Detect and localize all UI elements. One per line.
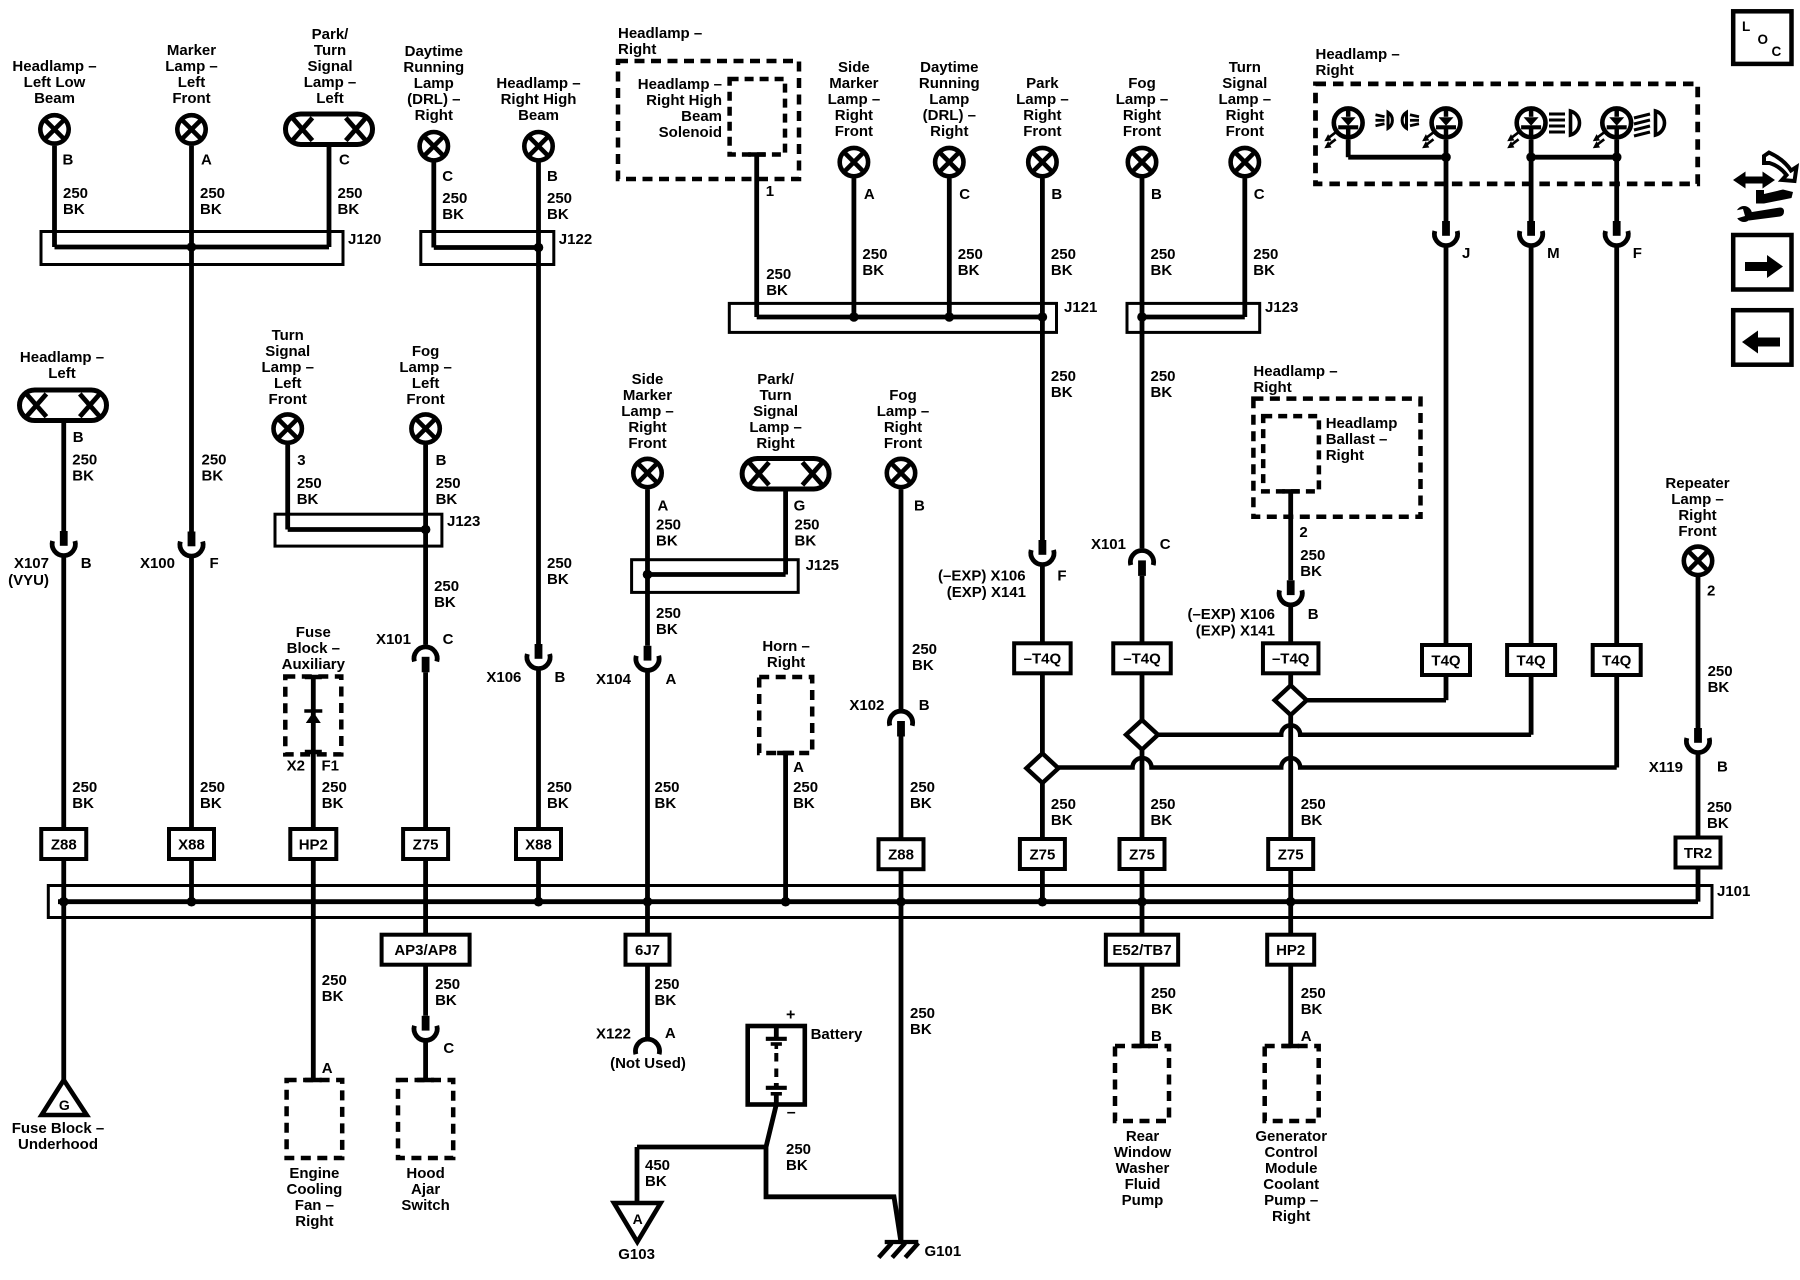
svg-text:A: A: [322, 1060, 333, 1077]
svg-text:G103: G103: [618, 1246, 655, 1263]
svg-text:Repeater: Repeater: [1665, 475, 1729, 492]
svg-text:B: B: [1051, 186, 1062, 203]
svg-text:X119: X119: [1649, 759, 1683, 776]
svg-text:Left Low: Left Low: [24, 74, 86, 91]
svg-text:F: F: [210, 555, 219, 572]
svg-text:250: 250: [910, 779, 935, 796]
svg-text:BK: BK: [1301, 1001, 1323, 1018]
svg-text:250: 250: [793, 779, 818, 796]
svg-text:(–EXP) X106: (–EXP) X106: [1187, 606, 1275, 623]
svg-text:Lamp –: Lamp –: [1671, 491, 1724, 508]
svg-text:Front: Front: [1123, 123, 1161, 140]
svg-text:Lamp –: Lamp –: [1116, 91, 1169, 108]
svg-text:Left: Left: [48, 365, 76, 382]
svg-text:Fluid: Fluid: [1125, 1176, 1161, 1193]
svg-text:Front: Front: [1678, 523, 1716, 540]
svg-text:Pump: Pump: [1122, 1192, 1164, 1209]
svg-text:Horn –: Horn –: [762, 638, 810, 655]
svg-text:X104: X104: [596, 671, 632, 688]
svg-text:L: L: [1742, 19, 1750, 34]
svg-text:BK: BK: [436, 491, 458, 508]
svg-text:250: 250: [200, 779, 225, 796]
svg-text:BK: BK: [786, 1157, 808, 1174]
svg-text:Park/: Park/: [312, 26, 350, 43]
svg-text:Lamp –: Lamp –: [1219, 91, 1272, 108]
svg-text:Left: Left: [412, 375, 440, 392]
svg-text:Right: Right: [1023, 107, 1061, 124]
svg-text:B: B: [1717, 759, 1728, 776]
svg-text:(DRL) –: (DRL) –: [407, 91, 460, 108]
svg-text:250: 250: [297, 475, 322, 492]
svg-text:Window: Window: [1114, 1144, 1172, 1161]
svg-text:250: 250: [656, 517, 681, 534]
svg-text:C: C: [1160, 536, 1171, 553]
svg-text:BK: BK: [1051, 384, 1073, 401]
svg-text:Solenoid: Solenoid: [659, 124, 722, 141]
svg-text:250: 250: [786, 1141, 811, 1158]
svg-text:Right: Right: [628, 419, 666, 436]
svg-text:Turn: Turn: [759, 387, 791, 404]
svg-text:Lamp –: Lamp –: [165, 58, 218, 75]
svg-text:250: 250: [1707, 799, 1732, 816]
svg-text:250: 250: [322, 972, 347, 989]
svg-text:A: A: [201, 151, 212, 168]
svg-text:C: C: [1254, 186, 1265, 203]
svg-text:Daytime: Daytime: [920, 59, 978, 76]
svg-text:Right: Right: [1326, 447, 1364, 464]
svg-text:250: 250: [912, 641, 937, 658]
svg-text:BK: BK: [655, 992, 677, 1009]
svg-text:Auxiliary: Auxiliary: [282, 656, 346, 673]
svg-text:Z75: Z75: [1129, 846, 1155, 863]
svg-text:C: C: [1772, 44, 1782, 59]
svg-text:B: B: [436, 452, 447, 469]
svg-text:BK: BK: [645, 1173, 667, 1190]
svg-text:BK: BK: [1151, 812, 1173, 829]
svg-text:G101: G101: [925, 1243, 962, 1260]
svg-text:BK: BK: [547, 795, 569, 812]
svg-text:250: 250: [1151, 796, 1176, 813]
svg-text:Rear: Rear: [1126, 1128, 1160, 1145]
svg-text:Side: Side: [838, 59, 870, 76]
svg-text:Headlamp –: Headlamp –: [638, 76, 722, 93]
svg-text:Right High: Right High: [646, 92, 722, 109]
svg-text:Signal: Signal: [1222, 75, 1267, 92]
svg-text:A: A: [864, 186, 875, 203]
svg-text:BK: BK: [1300, 563, 1322, 580]
svg-text:J125: J125: [806, 557, 839, 574]
svg-text:Right: Right: [1123, 107, 1161, 124]
svg-text:X101: X101: [376, 631, 411, 648]
svg-text:Right: Right: [756, 435, 794, 452]
svg-text:Beam: Beam: [681, 108, 722, 125]
svg-text:Beam: Beam: [518, 107, 559, 124]
svg-text:X122: X122: [596, 1026, 631, 1043]
svg-text:Hood: Hood: [406, 1165, 444, 1182]
svg-text:Engine: Engine: [289, 1165, 339, 1182]
svg-text:C: C: [959, 186, 970, 203]
svg-text:BK: BK: [547, 206, 569, 223]
svg-text:G: G: [794, 498, 806, 515]
svg-text:E52/TB7: E52/TB7: [1112, 942, 1171, 959]
svg-text:250: 250: [1051, 796, 1076, 813]
svg-text:Front: Front: [835, 123, 873, 140]
svg-text:X102: X102: [849, 697, 884, 714]
svg-text:BK: BK: [912, 657, 934, 674]
svg-text:J123: J123: [1265, 299, 1298, 316]
svg-text:Headlamp –: Headlamp –: [1316, 46, 1400, 63]
svg-text:250: 250: [547, 190, 572, 207]
svg-text:T4Q: T4Q: [1431, 652, 1461, 669]
svg-text:Right: Right: [1253, 379, 1291, 396]
svg-text:BK: BK: [200, 201, 222, 218]
svg-text:Front: Front: [1023, 123, 1061, 140]
svg-text:BK: BK: [766, 282, 788, 299]
svg-text:250: 250: [72, 779, 97, 796]
svg-text:Side: Side: [632, 371, 664, 388]
svg-text:Fog: Fog: [1128, 75, 1156, 92]
svg-text:Z75: Z75: [413, 836, 439, 853]
svg-text:Front: Front: [884, 435, 922, 452]
svg-text:BK: BK: [202, 468, 224, 485]
svg-text:Signal: Signal: [307, 58, 352, 75]
svg-text:250: 250: [547, 555, 572, 572]
svg-text:BK: BK: [1301, 812, 1323, 829]
svg-text:B: B: [547, 168, 558, 185]
svg-text:Front: Front: [628, 435, 666, 452]
svg-text:Park/: Park/: [757, 371, 795, 388]
svg-text:BK: BK: [63, 201, 85, 218]
svg-text:Lamp –: Lamp –: [621, 403, 674, 420]
svg-text:Fog: Fog: [889, 387, 917, 404]
svg-text:BK: BK: [338, 201, 360, 218]
svg-text:B: B: [555, 669, 566, 686]
svg-text:Right: Right: [835, 107, 873, 124]
svg-text:Right: Right: [1678, 507, 1716, 524]
svg-text:Right: Right: [415, 107, 453, 124]
svg-text:BK: BK: [656, 533, 678, 550]
svg-text:Right: Right: [884, 419, 922, 436]
svg-text:1: 1: [766, 183, 774, 200]
svg-text:BK: BK: [1708, 679, 1730, 696]
svg-text:BK: BK: [1051, 812, 1073, 829]
svg-text:Left: Left: [316, 90, 344, 107]
svg-text:B: B: [1151, 186, 1162, 203]
svg-text:Turn: Turn: [314, 42, 346, 59]
svg-text:Coolant: Coolant: [1263, 1176, 1319, 1193]
svg-text:BK: BK: [435, 992, 457, 1009]
svg-text:Z88: Z88: [888, 847, 914, 864]
svg-text:Lamp: Lamp: [414, 75, 454, 92]
svg-text:B: B: [81, 555, 92, 572]
svg-text:X88: X88: [525, 836, 552, 853]
svg-text:250: 250: [1151, 246, 1176, 263]
svg-text:Pump –: Pump –: [1264, 1192, 1318, 1209]
svg-text:M: M: [1547, 245, 1560, 262]
svg-text:3: 3: [297, 452, 305, 469]
svg-text:A: A: [1301, 1028, 1312, 1045]
svg-text:250: 250: [202, 452, 227, 469]
svg-text:Washer: Washer: [1116, 1160, 1170, 1177]
svg-text:250: 250: [434, 578, 459, 595]
svg-text:B: B: [63, 151, 74, 168]
svg-text:250: 250: [435, 976, 460, 993]
svg-text:450: 450: [645, 1157, 670, 1174]
svg-text:Right: Right: [1272, 1208, 1310, 1225]
svg-text:BK: BK: [958, 262, 980, 279]
svg-text:X2: X2: [287, 758, 305, 775]
svg-text:Lamp –: Lamp –: [304, 74, 357, 91]
svg-text:HP2: HP2: [299, 836, 328, 853]
svg-text:(Not Used): (Not Used): [610, 1055, 686, 1072]
svg-text:(EXP) X141: (EXP) X141: [1196, 623, 1275, 640]
svg-text:B: B: [914, 498, 925, 515]
svg-text:BK: BK: [1151, 384, 1173, 401]
svg-text:250: 250: [1301, 796, 1326, 813]
svg-text:Beam: Beam: [34, 90, 75, 107]
svg-text:250: 250: [322, 779, 347, 796]
svg-text:C: C: [442, 168, 453, 185]
svg-text:250: 250: [1151, 368, 1176, 385]
svg-text:Signal: Signal: [753, 403, 798, 420]
svg-text:Right: Right: [1226, 107, 1264, 124]
svg-text:250: 250: [655, 779, 680, 796]
svg-text:BK: BK: [72, 795, 94, 812]
svg-text:Right: Right: [618, 41, 656, 58]
svg-text:Lamp –: Lamp –: [828, 91, 881, 108]
svg-text:BK: BK: [72, 468, 94, 485]
svg-text:6J7: 6J7: [635, 942, 660, 959]
svg-text:Right: Right: [767, 654, 805, 671]
svg-text:250: 250: [1300, 547, 1325, 564]
svg-text:A: A: [665, 1025, 676, 1042]
svg-text:Marker: Marker: [829, 75, 878, 92]
svg-text:BK: BK: [1707, 815, 1729, 832]
svg-text:Headlamp –: Headlamp –: [12, 58, 96, 75]
svg-text:Module: Module: [1265, 1160, 1318, 1177]
svg-text:–T4Q: –T4Q: [1272, 651, 1310, 668]
svg-text:250: 250: [958, 246, 983, 263]
svg-text:Z88: Z88: [51, 836, 77, 853]
svg-text:BK: BK: [862, 262, 884, 279]
svg-text:B: B: [73, 429, 84, 446]
svg-text:BK: BK: [655, 795, 677, 812]
svg-text:BK: BK: [322, 795, 344, 812]
svg-text:250: 250: [655, 976, 680, 993]
svg-text:J122: J122: [559, 231, 592, 248]
svg-text:Ballast –: Ballast –: [1326, 431, 1388, 448]
svg-text:250: 250: [200, 185, 225, 202]
svg-text:B: B: [1308, 606, 1319, 623]
svg-text:BK: BK: [1151, 1001, 1173, 1018]
svg-text:250: 250: [1253, 246, 1278, 263]
svg-text:T4Q: T4Q: [1602, 652, 1632, 669]
svg-text:Headlamp –: Headlamp –: [1253, 363, 1337, 380]
svg-text:F: F: [1633, 245, 1642, 262]
svg-text:Right High: Right High: [501, 91, 577, 108]
svg-text:250: 250: [656, 605, 681, 622]
svg-text:X106: X106: [486, 669, 521, 686]
svg-text:Control: Control: [1265, 1144, 1318, 1161]
svg-text:250: 250: [1151, 985, 1176, 1002]
svg-text:BK: BK: [1253, 262, 1275, 279]
svg-text:Ajar: Ajar: [411, 1181, 440, 1198]
svg-text:F: F: [1057, 568, 1066, 585]
svg-text:–T4Q: –T4Q: [1024, 651, 1062, 668]
svg-text:HP2: HP2: [1276, 942, 1305, 959]
svg-text:Turn: Turn: [272, 327, 304, 344]
svg-text:250: 250: [1708, 663, 1733, 680]
svg-text:Turn: Turn: [1229, 59, 1261, 76]
svg-text:C: C: [339, 151, 350, 168]
svg-text:A: A: [793, 759, 804, 776]
svg-text:T4Q: T4Q: [1517, 652, 1547, 669]
svg-text:Lamp –: Lamp –: [261, 359, 314, 376]
svg-text:250: 250: [1051, 368, 1076, 385]
svg-text:BK: BK: [910, 1021, 932, 1038]
svg-text:Lamp –: Lamp –: [399, 359, 452, 376]
svg-text:(EXP) X141: (EXP) X141: [947, 584, 1026, 601]
svg-text:X101: X101: [1091, 536, 1126, 553]
svg-text:AP3/AP8: AP3/AP8: [394, 942, 457, 959]
svg-text:–T4Q: –T4Q: [1123, 651, 1161, 668]
svg-text:Battery: Battery: [811, 1026, 863, 1043]
svg-text:+: +: [786, 1007, 795, 1024]
svg-text:BK: BK: [795, 533, 817, 550]
svg-text:Headlamp –: Headlamp –: [618, 25, 702, 42]
svg-text:Switch: Switch: [401, 1197, 449, 1214]
svg-text:Marker: Marker: [623, 387, 672, 404]
svg-text:F1: F1: [322, 758, 340, 775]
svg-text:J123: J123: [447, 513, 480, 530]
svg-text:Left: Left: [274, 375, 302, 392]
svg-text:Signal: Signal: [265, 343, 310, 360]
svg-text:B: B: [1151, 1028, 1162, 1045]
svg-text:Fuse Block –: Fuse Block –: [12, 1120, 105, 1137]
svg-text:J120: J120: [348, 231, 381, 248]
svg-text:BK: BK: [547, 571, 569, 588]
svg-text:J: J: [1462, 245, 1470, 262]
svg-text:Front: Front: [406, 391, 444, 408]
svg-text:Headlamp –: Headlamp –: [20, 349, 104, 366]
svg-text:250: 250: [442, 190, 467, 207]
svg-text:Daytime: Daytime: [405, 43, 463, 60]
svg-text:250: 250: [72, 452, 97, 469]
svg-text:A: A: [666, 671, 677, 688]
svg-text:Right: Right: [295, 1213, 333, 1230]
svg-text:TR2: TR2: [1684, 845, 1712, 862]
svg-text:250: 250: [1051, 246, 1076, 263]
svg-text:Park: Park: [1026, 75, 1059, 92]
svg-text:250: 250: [547, 779, 572, 796]
svg-text:BK: BK: [656, 621, 678, 638]
svg-text:Z75: Z75: [1029, 846, 1055, 863]
svg-text:BK: BK: [793, 795, 815, 812]
svg-text:250: 250: [1301, 985, 1326, 1002]
svg-text:Front: Front: [269, 391, 307, 408]
svg-text:2: 2: [1707, 582, 1715, 599]
svg-text:Headlamp –: Headlamp –: [496, 75, 580, 92]
svg-text:Front: Front: [1226, 123, 1264, 140]
svg-text:Fan –: Fan –: [295, 1197, 334, 1214]
svg-text:A: A: [658, 498, 669, 515]
svg-text:250: 250: [862, 246, 887, 263]
svg-text:Lamp –: Lamp –: [877, 403, 930, 420]
svg-text:250: 250: [910, 1005, 935, 1022]
svg-text:BK: BK: [200, 795, 222, 812]
svg-text:250: 250: [63, 185, 88, 202]
svg-text:Right: Right: [1316, 62, 1354, 79]
svg-text:250: 250: [795, 517, 820, 534]
svg-text:Lamp: Lamp: [929, 91, 969, 108]
svg-text:J101: J101: [1717, 883, 1750, 900]
svg-text:X100: X100: [140, 555, 175, 572]
svg-text:Running: Running: [919, 75, 980, 92]
svg-text:Cooling: Cooling: [286, 1181, 342, 1198]
svg-text:Running: Running: [403, 59, 464, 76]
svg-text:A: A: [633, 1211, 643, 1227]
svg-text:BK: BK: [434, 594, 456, 611]
svg-text:C: C: [443, 1040, 454, 1057]
svg-text:(VYU): (VYU): [8, 572, 49, 589]
svg-text:Headlamp: Headlamp: [1326, 415, 1398, 432]
svg-text:Fuse: Fuse: [296, 624, 331, 641]
svg-text:X107: X107: [14, 555, 49, 572]
svg-text:Underhood: Underhood: [18, 1136, 98, 1153]
svg-text:(DRL) –: (DRL) –: [923, 107, 976, 124]
svg-text:B: B: [919, 697, 930, 714]
svg-text:O: O: [1758, 32, 1769, 47]
svg-text:BK: BK: [1051, 262, 1073, 279]
svg-text:Lamp –: Lamp –: [1016, 91, 1069, 108]
svg-text:Right: Right: [930, 123, 968, 140]
svg-text:Block –: Block –: [287, 640, 340, 657]
svg-text:Front: Front: [172, 90, 210, 107]
svg-text:X88: X88: [178, 836, 205, 853]
svg-text:250: 250: [338, 185, 363, 202]
svg-text:Z75: Z75: [1278, 846, 1304, 863]
svg-text:250: 250: [766, 266, 791, 283]
svg-text:Generator: Generator: [1255, 1128, 1327, 1145]
svg-text:J121: J121: [1064, 299, 1097, 316]
svg-text:250: 250: [436, 475, 461, 492]
svg-text:(–EXP) X106: (–EXP) X106: [938, 568, 1026, 585]
svg-text:BK: BK: [322, 988, 344, 1005]
svg-text:BK: BK: [910, 795, 932, 812]
svg-text:Lamp –: Lamp –: [749, 419, 802, 436]
svg-text:Left: Left: [178, 74, 206, 91]
svg-text:BK: BK: [297, 491, 319, 508]
svg-text:C: C: [443, 631, 454, 648]
svg-text:Fog: Fog: [412, 343, 440, 360]
svg-text:Marker: Marker: [167, 42, 216, 59]
svg-text:–: –: [787, 1104, 796, 1121]
svg-text:BK: BK: [442, 206, 464, 223]
svg-text:2: 2: [1299, 524, 1307, 541]
svg-text:G: G: [59, 1097, 70, 1113]
svg-text:BK: BK: [1151, 262, 1173, 279]
